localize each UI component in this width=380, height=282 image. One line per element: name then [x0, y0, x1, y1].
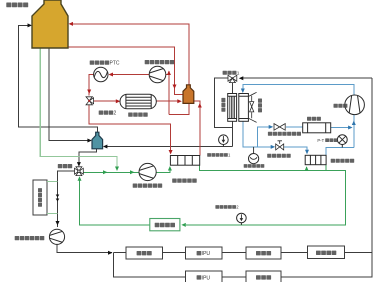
- arrow: heater outlet into orange tank: [177, 99, 182, 103]
- wire: compressor discharge to condenser: [243, 84, 354, 95]
- label 后IPU: [197, 251, 211, 257]
- arrow: into teal tank left: [87, 139, 92, 143]
- label 压缩机: [334, 104, 348, 108]
- arrow: orange tank right riser up: [198, 103, 202, 108]
- wire: eev to chiller top: [283, 147, 307, 151]
- label 压力传感器: [244, 164, 265, 168]
- valve 四通阀: [75, 167, 84, 176]
- arrow: pump outlet to sanheyi: [108, 251, 113, 255]
- label 动力电池: [155, 223, 175, 227]
- arrow: evap outlet to junction: [348, 126, 353, 130]
- sensor 水温传感器2: [237, 213, 247, 225]
- box 后IPU: [185, 247, 222, 259]
- label 水温传感器2: [215, 205, 239, 210]
- arrow: into eev: [271, 145, 276, 149]
- label 散热器 (rotated): [221, 98, 225, 112]
- pump 采暖回路水泵: [149, 66, 166, 83]
- label 水温传感器1: [207, 153, 231, 158]
- arrow: valve to pump flow: [103, 170, 108, 174]
- arrow: into teal tank bottom right: [103, 145, 108, 149]
- heat exchanger 水水换热器: [170, 156, 199, 166]
- label 四通阀: [58, 164, 72, 168]
- arrow: up into HX bottom left: [168, 166, 172, 171]
- compressor 压缩机: [345, 95, 365, 115]
- label 后电机: [256, 251, 271, 255]
- arrow: into 4way valve top: [77, 162, 81, 167]
- wire: valve2 right to heater core: [93, 100, 117, 102]
- arrow: into heater core left: [116, 99, 121, 103]
- label 电子膨胀阀: [267, 154, 290, 158]
- label 蒸发器: [307, 117, 321, 121]
- wire: condenser inlet stub: [242, 84, 244, 92]
- arrow: PTC down to valve2: [87, 90, 91, 95]
- valve 三通阀2: [86, 97, 94, 105]
- arrow: into tev: [269, 125, 274, 129]
- arrow: red down into HX top left: [169, 150, 173, 155]
- radiator 散热器: [228, 94, 237, 122]
- wire: radiator outlet line to teal tank: [104, 146, 232, 148]
- heat exchanger 电池换热器 (chiller): [305, 155, 326, 164]
- arrow: into battery pump: [130, 170, 135, 174]
- arrow: into PTC right: [109, 73, 114, 77]
- label 电池回路水泵: [133, 184, 163, 188]
- box 后减速器: [308, 246, 345, 259]
- label 三合一: [137, 251, 152, 255]
- label 电池换热器: [331, 159, 354, 163]
- wire: condenser bottom to expansion valves: [243, 121, 274, 147]
- wire: big tank right to orange tank left upper: [68, 47, 183, 95]
- wire: chiller suction line: [326, 148, 354, 156]
- label 三通阀1: [223, 71, 240, 77]
- wire: pump to rear row with junction: [57, 244, 112, 252]
- label 三通阀2: [99, 111, 117, 117]
- wire: HX bottom right to chiller and right riser: [186, 165, 345, 225]
- arrow: motor pump inlet: [56, 221, 60, 226]
- box 前IPU: [185, 271, 222, 282]
- arrow: suction up into compressor: [352, 121, 356, 126]
- arrow: up into chiller bottom left: [305, 166, 309, 171]
- label 前IPU: [197, 275, 211, 281]
- arrow: down into chiller top left: [305, 150, 309, 155]
- box 前电机: [246, 271, 281, 282]
- wire: pump2 suction riser: [166, 71, 169, 115]
- wire: big tank left loop to teal tank top: [18, 25, 97, 132]
- wire: radiator stems: [231, 82, 233, 147]
- sensor 压力传感器: [249, 147, 259, 164]
- wire: pale green from big tank: [40, 48, 117, 168]
- wire: front row drop and line: [113, 253, 372, 278]
- svg-text:PTC: PTC: [110, 61, 120, 67]
- wire: rear row connectors: [113, 252, 372, 254]
- condenser box: [239, 94, 249, 122]
- evaporator 蒸发器: [303, 123, 331, 133]
- valve 电磁热力膨胀阀 (TEV): [274, 124, 285, 131]
- label 前电机: [256, 275, 271, 279]
- box 前端模块: [33, 180, 58, 215]
- wire: 3way valve1 bypass left: [215, 78, 233, 127]
- wire: PTC to pump2 line: [112, 74, 149, 76]
- wire: U under orange tank: [169, 104, 189, 115]
- label 电磁热力膨胀阀: [268, 132, 301, 136]
- tank: small teal kettle: [92, 132, 103, 149]
- heater 水加热器PTC: [94, 67, 108, 81]
- arrow: into battery box right: [181, 223, 186, 227]
- wire: battery left return to 4way valve bottom: [80, 178, 150, 225]
- valve 三通阀1: [228, 75, 237, 82]
- wire: tev to evaporator to compressor: [286, 115, 354, 148]
- tank: small orange kettle: [183, 85, 194, 104]
- svg-text:P-T: P-T: [317, 138, 324, 143]
- label P-T传感器: [317, 138, 337, 143]
- box 三合一: [126, 247, 162, 259]
- arrow: double arrow on motor drop line: [56, 195, 60, 198]
- svg-text:IPU: IPU: [202, 251, 211, 257]
- wire: PTC left down to 3way valve2: [89, 75, 93, 96]
- arrow: into 3way valve1 from right: [239, 76, 244, 80]
- tank 储能水壶 (big yellow kettle): [32, 0, 68, 48]
- wire: valve2 bottom bypass to water-water HX: [89, 105, 170, 150]
- wire: heater core outlet to orange tank: [156, 100, 178, 102]
- label 暖风芯体: [128, 113, 148, 117]
- arrow: up into 4way valve bottom: [78, 176, 82, 181]
- fan symbol beside condenser: [249, 92, 257, 122]
- label 水水换热器: [172, 179, 197, 183]
- arrow: into big tank left: [28, 23, 33, 27]
- wire: 4way valve left port to motor pump: [58, 171, 75, 227]
- label 前端模块 (rotated): [38, 188, 42, 207]
- arrow: into big tank right: [69, 22, 74, 26]
- label 水加热器PTC: [90, 61, 120, 67]
- wire: 4way valve right to battery pump: [83, 171, 139, 173]
- wire: chiller bottom stubs: [307, 165, 327, 171]
- svg-text:2: 2: [114, 111, 117, 117]
- svg-text:1: 1: [237, 71, 240, 77]
- heat exchanger 暖风芯体 (heater core): [120, 94, 156, 109]
- arrow: into condenser top: [241, 89, 245, 94]
- label 冷凝器 (rotated): [258, 99, 262, 113]
- wire: orange tank right down to HX: [194, 101, 200, 155]
- box 动力电池: [150, 219, 180, 231]
- label 后减速器: [316, 251, 336, 255]
- label 电机回路水泵: [15, 236, 45, 240]
- svg-text:IPU: IPU: [202, 275, 211, 281]
- label 采暖回路水泵: [145, 60, 175, 64]
- pump 电机回路水泵: [49, 229, 64, 244]
- arrow: pump2 suction up: [167, 71, 171, 76]
- wire: teal tank bottom to 4way valve top: [79, 149, 97, 165]
- arrow: tank green joins loop: [115, 167, 119, 172]
- wire: motor loop top line to 3way valve1: [241, 77, 372, 79]
- wire: red top line orange tank to big tank: [71, 24, 190, 85]
- wire: big tank bottom to teal tank left: [49, 48, 87, 141]
- valve 电子膨胀阀 (EEV): [276, 141, 284, 150]
- wire: battery pump to HX bottom left: [156, 167, 170, 172]
- arrow: down into orange tank left feed: [173, 85, 177, 90]
- box 后电机: [246, 247, 281, 259]
- label 储能水壶: [6, 3, 28, 8]
- pump 电池回路水泵: [139, 163, 156, 180]
- sensor 水温传感器1: [219, 135, 229, 147]
- wire: motor loop right riser: [371, 78, 373, 252]
- sensor P-T传感器: [337, 135, 347, 148]
